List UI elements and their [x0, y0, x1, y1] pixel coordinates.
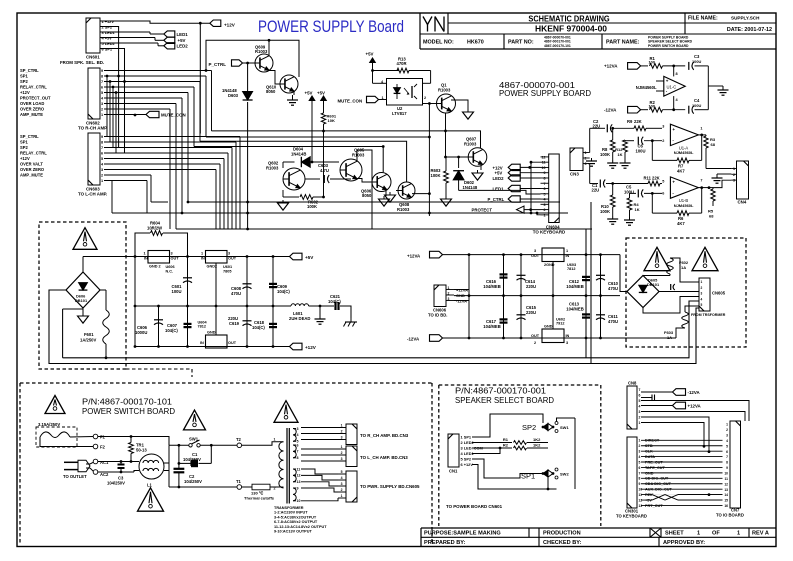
svg-text:IN: IN: [566, 334, 570, 338]
mid rail GND: [135, 305, 291, 307]
svg-text:11-12-13:AC14.8Vx2 OUTPUT: 11-12-13:AC14.8Vx2 OUTPUT: [274, 525, 327, 529]
svg-text:2UH DEAD: 2UH DEAD: [289, 316, 310, 321]
resistor R9 22K: [634, 126, 646, 131]
capacitor C614 220U: [520, 255, 522, 296]
resistor R12 1K: [623, 140, 628, 152]
terminal AC1: [93, 459, 98, 464]
svg-text:P_CTRL: P_CTRL: [488, 197, 505, 202]
svg-text:7: 7: [544, 182, 546, 186]
capacitor C3 104/250V: [120, 462, 122, 465]
connector CN301: [627, 437, 637, 508]
ground under Q607: [480, 166, 482, 171]
svg-text:6: 6: [544, 187, 546, 191]
switch SW1 ssb: [555, 422, 558, 425]
svg-text:3: 3: [297, 427, 299, 431]
svg-text:2: 2: [101, 174, 103, 178]
transistor Q1: [437, 94, 456, 113]
connector CN7: [730, 421, 741, 508]
svg-text:+5V: +5V: [305, 255, 314, 260]
svg-text:P/N:4867-000170-001: P/N:4867-000170-001: [455, 387, 546, 396]
svg-text:1: 1: [737, 531, 740, 537]
svg-text:1-2:AC230V INPUT: 1-2:AC230V INPUT: [274, 511, 308, 515]
svg-text:9: 9: [639, 482, 641, 486]
svg-text:1N414B: 1N414B: [291, 151, 306, 156]
tag +12VA kb: [641, 405, 673, 407]
wire U603 gnd: [552, 262, 554, 296]
terminal T1: [237, 485, 242, 490]
svg-text:100K: 100K: [600, 209, 610, 214]
svg-text:13: 13: [724, 488, 728, 492]
svg-text:+5V: +5V: [305, 91, 313, 96]
wire CN601 pin1 to +12V: [100, 21, 210, 23]
terminal AC2: [93, 470, 98, 475]
svg-text:2: 2: [101, 108, 103, 112]
svg-text:8050: 8050: [362, 193, 372, 198]
capacitor C616 104/MEB: [503, 255, 505, 296]
svg-text:5: 5: [639, 399, 641, 403]
svg-text:1: 1: [639, 439, 641, 443]
capacitor CN8 cap: [641, 397, 652, 399]
wire bridge top to rail: [82, 257, 84, 273]
capacitor C617 104/MEB: [503, 296, 505, 338]
title block outline: [419, 13, 421, 49]
svg-text:2: 2: [341, 430, 343, 434]
svg-text:9: 9: [544, 171, 546, 175]
tag +12V out: [290, 343, 303, 350]
wires tags to CN604: [520, 166, 540, 168]
wire fuse to bus1: [62, 309, 64, 358]
svg-text:22K: 22K: [634, 119, 642, 124]
connector CN601: [86, 18, 100, 53]
svg-text:SW2: SW2: [560, 472, 569, 477]
svg-text:+: +: [666, 79, 669, 84]
svg-text:8: 8: [726, 461, 728, 465]
warning triangle L1: [138, 488, 164, 511]
regulator U606: [148, 251, 170, 264]
dashed box power switch board: [20, 382, 432, 384]
svg-text:R2: R2: [503, 443, 509, 448]
wire CN601 pin5 to LED2: [100, 42, 158, 44]
svg-text:APPROVED BY:: APPROVED BY:: [663, 540, 705, 546]
wire Q1 base branch down: [428, 104, 430, 217]
connector CN3: [570, 148, 583, 171]
wire F1 to SW1: [98, 437, 169, 446]
svg-text:1A/250V: 1A/250V: [80, 338, 97, 343]
capacitor C613 104/MEB: [585, 296, 587, 338]
svg-text:R1003: R1003: [352, 152, 365, 157]
svg-text:TO IO BOARD: TO IO BOARD: [716, 513, 744, 518]
svg-text:3: 3: [733, 179, 735, 183]
svg-text:1: 1: [733, 167, 735, 171]
svg-text:TO L_CH AMP. BD.CN3: TO L_CH AMP. BD.CN3: [360, 455, 408, 460]
wires sp1 loop: [472, 459, 543, 478]
svg-text:IN: IN: [144, 257, 148, 261]
transistor Q609: [255, 54, 273, 72]
transformer secondary group3: [293, 469, 296, 482]
tag LED1: [164, 31, 175, 37]
earth ground right: [340, 306, 351, 318]
terminal T2: [237, 443, 242, 448]
wire +12V branch down: [199, 23, 201, 133]
svg-text:104/250V: 104/250V: [184, 479, 202, 484]
svg-text:104/MEB: 104/MEB: [566, 284, 583, 289]
svg-text:Thermal cutoffs: Thermal cutoffs: [244, 495, 275, 500]
capacitor C2 104/250V: [178, 463, 180, 468]
+5V arrows: [311, 100, 313, 104]
bottom title strip: [420, 528, 422, 547]
svg-text:OUT: OUT: [228, 341, 237, 345]
svg-text:5: 5: [101, 157, 103, 161]
svg-text:SHEET: SHEET: [665, 531, 684, 537]
svg-text:3.15A/250V: 3.15A/250V: [38, 422, 60, 427]
svg-text:4: 4: [297, 433, 299, 437]
wire Q605 collector: [357, 150, 372, 229]
svg-text:SPEAKER SELECT BOARD: SPEAKER SELECT BOARD: [455, 396, 554, 405]
wire L1 to left vertical: [164, 462, 169, 464]
svg-text:11: 11: [725, 477, 729, 481]
wire bottom to T1: [169, 486, 237, 488]
regulator U603 7812: [542, 248, 564, 262]
svg-text:104(C): 104(C): [252, 325, 265, 330]
svg-text:2: 2: [424, 96, 426, 100]
switch SW2 ssb: [555, 468, 558, 471]
svg-text:470U: 470U: [231, 291, 241, 296]
svg-text:+12VA: +12VA: [688, 404, 702, 409]
wire CN3 pin1 to C2: [589, 128, 591, 152]
svg-text:12: 12: [542, 155, 546, 159]
svg-text:7912: 7912: [556, 322, 564, 326]
capacitor C608 470U: [246, 257, 248, 307]
svg-text:+12V: +12V: [20, 156, 30, 161]
capacitor C607 104(C): [187, 306, 189, 347]
rail +12VA: [443, 254, 621, 256]
svg-text:1K: 1K: [617, 152, 622, 157]
svg-text:MUTE_CON: MUTE_CON: [338, 98, 363, 103]
wire CN601 pin6: [100, 49, 125, 154]
svg-text:100K: 100K: [431, 173, 441, 178]
AC plug: [78, 460, 90, 472]
svg-text:4867-000170-101: 4867-000170-101: [544, 44, 571, 48]
svg-text:R1: R1: [503, 437, 509, 442]
fuse F603: [685, 306, 699, 312]
wire CN601 pin4 to +5V: [100, 37, 155, 39]
svg-text:AMP_MUTE: AMP_MUTE: [20, 173, 43, 178]
terminal F1: [70, 436, 93, 439]
svg-text:SP_CTRL: SP_CTRL: [20, 68, 39, 73]
svg-text:CN4: CN4: [738, 200, 747, 205]
capacitor C603: [305, 178, 320, 180]
svg-text:OVER ZERO: OVER ZERO: [20, 167, 45, 172]
svg-text:3: 3: [171, 252, 173, 256]
svg-text:5: 5: [726, 444, 728, 448]
warning triangle psw: [45, 396, 65, 414]
svg-text:5: 5: [544, 192, 546, 196]
svg-text:PRODUCTION: PRODUCTION: [543, 531, 581, 537]
diode D602: [458, 157, 460, 168]
ground CN3 pin2: [591, 158, 593, 161]
svg-text:12: 12: [297, 474, 301, 478]
warning triangle transformer: [274, 401, 298, 423]
svg-text:1: 1: [566, 249, 568, 253]
wire Q1 emitter down to Q607: [445, 113, 447, 157]
svg-text:6: 6: [101, 152, 103, 156]
wire CN604 pin1 from rail: [537, 213, 541, 215]
svg-text:OUT: OUT: [228, 257, 237, 261]
wire long bus1: [212, 130, 446, 132]
wires CN606 to rails: [454, 289, 469, 291]
logo YN: [423, 17, 428, 25]
svg-text:R1003: R1003: [464, 142, 477, 147]
svg-text:100U: 100U: [692, 59, 701, 64]
svg-text:SW1: SW1: [560, 425, 569, 430]
svg-text:PART NAME:: PART NAME:: [606, 40, 640, 46]
transistor Q610: [280, 75, 298, 93]
svg-text:TRANSFORMER: TRANSFORMER: [274, 506, 304, 510]
svg-text:104/MEB: 104/MEB: [483, 324, 500, 329]
resistor R604 10R/2W bypass: [135, 233, 150, 257]
svg-text:1: 1: [341, 445, 343, 449]
inductor L601: [291, 304, 309, 306]
svg-text:+: +: [672, 127, 675, 132]
svg-text:100: 100: [649, 60, 656, 65]
svg-text:15: 15: [724, 499, 728, 503]
svg-text:T2: T2: [236, 437, 242, 442]
svg-text:5: 5: [662, 180, 664, 184]
tag MUTE_CON: [134, 114, 137, 117]
svg-text:1: 1: [700, 127, 702, 131]
svg-text:10R/2W: 10R/2W: [147, 226, 162, 231]
svg-text:TO OUTLET: TO OUTLET: [63, 474, 87, 479]
svg-text:SP2: SP2: [522, 423, 536, 432]
connector CN606: [434, 285, 446, 307]
svg-text:9: 9: [101, 69, 103, 73]
svg-text:3: 3: [341, 436, 343, 440]
svg-text:FROM SPK. SEL. BD.: FROM SPK. SEL. BD.: [60, 60, 104, 65]
svg-text:8: 8: [101, 141, 103, 145]
svg-text:7: 7: [297, 450, 299, 454]
connector block R_CH: [346, 424, 357, 445]
svg-text:L1: L1: [147, 483, 153, 488]
svg-text:1000U: 1000U: [135, 330, 147, 335]
svg-text:GND: GND: [207, 331, 216, 335]
tag +5V: [164, 37, 175, 43]
svg-text:NJM4560L: NJM4560L: [674, 150, 694, 155]
svg-text:U1-C: U1-C: [667, 85, 677, 90]
resistor R2: [472, 447, 512, 449]
tag +12V: [210, 20, 221, 26]
svg-text:+12V: +12V: [224, 23, 236, 28]
svg-text:N.C.: N.C.: [166, 269, 174, 273]
svg-text:OVER LOAD: OVER LOAD: [20, 101, 44, 106]
svg-text:3: 3: [566, 341, 568, 345]
svg-text:PROTECT_OUT: PROTECT_OUT: [20, 96, 51, 101]
rail +12V bottom: [135, 346, 290, 348]
svg-text:104(C): 104(C): [328, 299, 341, 304]
svg-text:5 SP2: 5 SP2: [461, 457, 472, 462]
svg-text:+12VA: +12VA: [604, 64, 618, 69]
warning triangle left: [73, 228, 97, 250]
svg-text:7: 7: [101, 146, 103, 150]
svg-text:SP_CTRL: SP_CTRL: [20, 134, 39, 139]
wire bus verticals right: [585, 229, 587, 358]
svg-text:2: 2: [341, 451, 343, 455]
svg-text:470U: 470U: [608, 286, 618, 291]
svg-text:2: 2: [274, 487, 276, 491]
wire D602 to CN604: [459, 190, 541, 194]
regulator U601 7805: [206, 251, 228, 264]
svg-text:IN: IN: [200, 341, 204, 345]
transformer taps: [293, 428, 296, 430]
connector CN4: [737, 161, 749, 199]
svg-text:3: 3: [639, 410, 641, 414]
wire long bus2: [206, 136, 429, 138]
capacitor C612 104/MEB: [585, 255, 587, 296]
svg-text:D603: D603: [228, 93, 239, 98]
wire rail PROTECT: [112, 212, 568, 214]
resistor R2 100: [641, 109, 648, 111]
svg-text:7812: 7812: [567, 267, 575, 271]
svg-text:7812: 7812: [198, 325, 206, 329]
svg-text:1: 1: [639, 421, 641, 425]
svg-text:CN1: CN1: [449, 469, 458, 474]
svg-text:22U: 22U: [592, 187, 600, 192]
svg-text:POWER SUPPLY BOARD: POWER SUPPLY BOARD: [499, 88, 591, 98]
warning triangle right 1: [644, 247, 670, 270]
resistor R3 68: [704, 136, 708, 148]
svg-text:4: 4: [639, 455, 641, 459]
svg-text:+12VA: +12VA: [407, 254, 421, 259]
fuse box dashed: [36, 427, 77, 447]
svg-text:1: 1: [697, 531, 700, 537]
wire rail y229: [176, 228, 592, 230]
svg-text:AMP_MUTE: AMP_MUTE: [20, 112, 43, 117]
svg-text:TO R-CH AMP.: TO R-CH AMP.: [78, 126, 108, 131]
svg-text:1: 1: [701, 280, 703, 284]
svg-text:2: 2: [544, 208, 546, 212]
svg-text:CN3: CN3: [570, 172, 579, 177]
svg-text:1: 1: [274, 438, 276, 442]
svg-text:9-10:AC13V OUTPUT: 9-10:AC13V OUTPUT: [274, 530, 312, 534]
svg-text:13: 13: [297, 480, 301, 484]
svg-text:8: 8: [297, 456, 299, 460]
svg-text:10: 10: [297, 499, 301, 503]
svg-text:3: 3: [639, 450, 641, 454]
svg-text:6: 6: [639, 466, 641, 470]
capacitor C601 100U: [187, 257, 189, 307]
feedback R7 4K7: [651, 141, 653, 161]
svg-text:4: 4: [639, 404, 641, 408]
svg-text:8: 8: [639, 477, 641, 481]
svg-text:7: 7: [101, 80, 103, 84]
transistor Q607: [468, 148, 487, 167]
svg-text:DB101: DB101: [75, 298, 88, 303]
svg-text:7805: 7805: [223, 269, 231, 273]
svg-text:IN: IN: [566, 254, 570, 258]
fuse symbol: [40, 432, 70, 438]
svg-text:1: 1: [101, 113, 103, 117]
resistor R13 470R: [372, 66, 374, 71]
svg-text:10K: 10K: [328, 118, 335, 123]
svg-text:2: 2: [701, 286, 703, 290]
svg-text:5: 5: [101, 91, 103, 95]
svg-text:104/MEB: 104/MEB: [483, 284, 500, 289]
svg-text:LED1: LED1: [177, 32, 189, 37]
svg-text:AC1: AC1: [100, 460, 109, 465]
wire top loop x206: [206, 40, 299, 77]
svg-text:6: 6: [662, 192, 664, 196]
connector CN604: [549, 154, 560, 223]
ground under Q602: [282, 200, 284, 203]
svg-text:F601: F601: [84, 332, 94, 337]
svg-text:TO L-CH AMP.: TO L-CH AMP.: [78, 192, 107, 197]
wire U2 loop: [372, 71, 374, 84]
bridge rectifier D606 DB101: [66, 272, 100, 308]
svg-text:3: 3: [701, 292, 703, 296]
svg-text:100U: 100U: [636, 148, 646, 153]
svg-text:470U: 470U: [608, 319, 618, 324]
svg-text:TO R_CH AMP. BD.CN3: TO R_CH AMP. BD.CN3: [360, 433, 409, 438]
inductor L1: [139, 454, 164, 479]
svg-text:4: 4: [726, 439, 728, 443]
svg-text:100K: 100K: [600, 152, 610, 157]
wire U1-A output: [698, 134, 706, 136]
transistor Q608: [398, 182, 415, 199]
svg-text:220U: 220U: [526, 284, 536, 289]
svg-text:3: 3: [726, 433, 728, 437]
svg-text:LED2: LED2: [493, 176, 505, 181]
wire long bus3: [200, 141, 407, 182]
wire AC2 to L1: [134, 471, 139, 473]
svg-text:6 +12V: 6 +12V: [461, 462, 474, 467]
ground CN4: [717, 173, 731, 175]
svg-text:10: 10: [724, 471, 728, 475]
svg-text:OUT: OUT: [531, 254, 540, 258]
capacitor C610 470U: [600, 255, 602, 296]
capacitor C619 220U: [246, 306, 248, 347]
svg-text:3: 3: [585, 162, 587, 166]
wire mesh CN602 pins: [104, 70, 212, 72]
svg-text:OVER ZERO: OVER ZERO: [20, 107, 45, 112]
svg-text:+12V: +12V: [20, 90, 30, 95]
svg-text:3: 3: [544, 203, 546, 207]
svg-text:NJM4560L: NJM4560L: [636, 85, 657, 90]
wire U2 pin2 to Q1: [423, 103, 437, 105]
svg-text:TO KEYBOARD: TO KEYBOARD: [533, 229, 565, 234]
svg-text:1: 1: [544, 213, 546, 217]
svg-text:2: 2: [726, 428, 728, 432]
svg-text:LED1: LED1: [493, 187, 505, 192]
svg-text:T1: T1: [236, 479, 242, 484]
svg-text:PURPOSE:SAMPLE MAKING: PURPOSE:SAMPLE MAKING: [424, 531, 501, 537]
wire SW1 to T2: [200, 444, 237, 446]
arrow +5V U2: [372, 62, 374, 66]
ground left of Q608: [396, 190, 398, 192]
resistor R8 100K: [612, 128, 614, 140]
warning triangle right 2: [692, 247, 718, 270]
svg-text:FILE NAME:: FILE NAME:: [688, 16, 718, 22]
svg-text:1K: 1K: [635, 207, 640, 212]
X box: [650, 528, 661, 537]
bridge rectifier D605 DB101: [627, 276, 659, 308]
svg-text:3: 3: [662, 125, 664, 129]
wire Q605 emitter to Q606: [357, 179, 372, 183]
svg-text:TO PWR. SUPPLY BD.CN605: TO PWR. SUPPLY BD.CN605: [360, 484, 420, 489]
svg-text:POWER SWITCH BOARD: POWER SWITCH BOARD: [82, 407, 175, 416]
svg-text:22K: 22K: [652, 176, 660, 181]
wire Q608 collector: [412, 193, 429, 195]
svg-text:7: 7: [726, 455, 728, 459]
svg-text:R9: R9: [627, 119, 633, 124]
